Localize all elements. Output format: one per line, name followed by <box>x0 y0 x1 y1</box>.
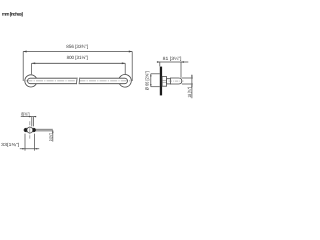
bar centerline (front view) <box>25 80 130 82</box>
bar end (side view, rounded cap) <box>170 78 181 84</box>
dimension O66: top extension <box>151 73 160 75</box>
dimension 81: left arrow <box>157 61 160 63</box>
top view: dimension 8 line <box>21 116 36 118</box>
svg-text:800 [31½”]: 800 [31½”] <box>67 55 88 60</box>
bottom dimension 33: left arrow <box>22 148 25 150</box>
dimension 800: right arrow <box>122 62 125 64</box>
top view: bar lower line <box>36 130 53 132</box>
svg-text:16[⅝”]: 16[⅝”] <box>48 133 53 141</box>
svg-text:33[1⅜”]: 33[1⅜”] <box>1 142 19 147</box>
dimension 8: right extension <box>33 117 35 127</box>
bar break left tick <box>75 78 78 85</box>
right vertical dimension arrow <box>52 130 54 133</box>
dimension O66: vertical dimension line <box>150 74 152 87</box>
wall flange (side view, filled) <box>160 67 162 96</box>
cone section (side view) <box>167 79 171 84</box>
dimension 81: left extension <box>159 62 161 66</box>
escutcheon bore hidden lines <box>162 79 170 81</box>
top view: left mounting lug (filled) <box>24 128 27 132</box>
dimension O18: vertical dimension line <box>191 75 193 99</box>
bottom dimension 33: dimension line <box>20 148 39 150</box>
dimension 81: right arrow <box>181 61 184 63</box>
bottom dimension 33: right arrow <box>35 148 38 150</box>
side view centerline <box>169 80 184 82</box>
svg-text:mm [inches]: mm [inches] <box>2 11 23 16</box>
top view: bar upper line <box>36 128 53 130</box>
top view: bar cross-section circle <box>27 127 33 133</box>
dimension O18: bottom arrow <box>191 84 193 87</box>
escutcheon (side view) <box>162 77 167 87</box>
top view: vertical centerline <box>29 121 31 138</box>
dimension 800: dimension line <box>32 62 125 64</box>
bar break gap <box>77 77 80 85</box>
bottom dimension 33: left extension <box>24 134 26 151</box>
svg-text:Ø 66 [2⅝”]: Ø 66 [2⅝”] <box>144 71 149 90</box>
dimension 856: left arrow <box>23 51 26 53</box>
svg-text:8[⅜”]: 8[⅜”] <box>21 111 29 116</box>
dimension 800: left extension line <box>30 63 32 74</box>
svg-text:81 [3¼”]: 81 [3¼”] <box>163 56 182 61</box>
bar break right tick <box>78 78 81 85</box>
dimension 8: left extension <box>31 117 33 127</box>
dimension 800: right extension line <box>124 63 126 74</box>
dimension 8: left arrow <box>29 116 32 118</box>
svg-text:856 [33¾”]: 856 [33¾”] <box>66 44 88 49</box>
dimension O66: bottom extension <box>151 86 160 88</box>
towel bar body (front view) <box>28 78 128 84</box>
dimension O18: top extension <box>182 77 193 79</box>
top view: right mounting lug (filled) <box>33 128 36 132</box>
dimension O18: top arrow <box>191 76 193 79</box>
dimension 8: right arrow <box>34 116 37 118</box>
right flange circle <box>119 75 132 88</box>
dimension 856: right extension line <box>131 52 133 82</box>
dimension 856: right arrow <box>129 51 132 53</box>
side view: dimension 81 line <box>157 61 188 63</box>
left flange circle <box>25 75 37 87</box>
dimension 800: left arrow <box>32 62 35 64</box>
svg-text:18 [¾”]: 18 [¾”] <box>187 87 192 98</box>
dimension O18: bottom extension <box>182 83 193 85</box>
dimension 856: left extension line <box>22 52 24 82</box>
dimension 81: right extension <box>180 62 182 78</box>
dimension O66: top arrow <box>150 74 152 77</box>
dimension O66: bottom arrow <box>150 84 152 87</box>
top view: bracket plate neck <box>24 128 36 132</box>
top view: right vertical dimension line <box>52 130 54 141</box>
dimension 856 overall: dimension line <box>23 51 132 53</box>
bottom dimension 33: right extension <box>34 134 36 151</box>
